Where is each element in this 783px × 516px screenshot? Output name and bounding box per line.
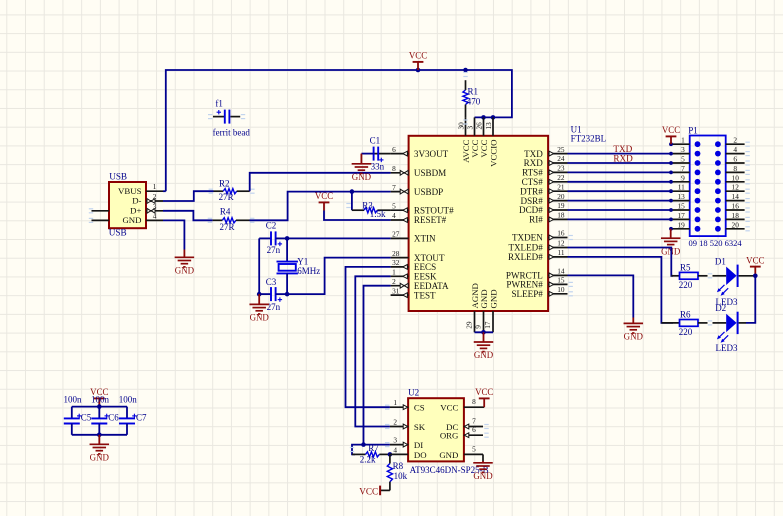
pin 24 RXD of U1 <box>524 154 568 168</box>
svg-text:12: 12 <box>732 183 740 192</box>
pin 12 of P1 <box>726 183 750 194</box>
svg-text:18: 18 <box>557 211 565 220</box>
pin 6 shield of USB <box>92 219 110 221</box>
pin 14 of P1 <box>726 192 750 203</box>
pin 18 of P1 <box>726 211 750 222</box>
svg-text:10k: 10k <box>394 471 408 481</box>
pin 5 RSTOUT# of U1 <box>391 201 455 215</box>
svg-text:USB: USB <box>109 228 127 238</box>
wire EESK to U2 SK <box>355 276 390 426</box>
wire C3 node to XTOUT pin 28 <box>287 258 391 295</box>
pin 19 DCD# of U1 <box>519 201 567 215</box>
power VCC (top rail) <box>409 51 427 70</box>
svg-text:DO: DO <box>414 450 427 460</box>
svg-text:22: 22 <box>557 173 565 182</box>
svg-text:GND: GND <box>489 289 499 308</box>
svg-text:R4: R4 <box>220 207 231 217</box>
svg-text:100n: 100n <box>119 394 138 404</box>
pin 4 of P1 <box>726 145 750 156</box>
svg-text:2: 2 <box>393 418 397 427</box>
svg-text:24: 24 <box>557 154 565 163</box>
svg-text:13: 13 <box>485 122 493 130</box>
capacitor C1 33n <box>361 136 390 172</box>
svg-text:VCC: VCC <box>315 191 333 201</box>
svg-text:27n: 27n <box>267 245 281 255</box>
svg-text:2: 2 <box>153 192 157 201</box>
wire RXLED# to R6 <box>568 257 674 323</box>
pin 16 TXDEN of U1 <box>512 229 568 243</box>
node junction VCC pin26 <box>481 115 486 120</box>
power VCC (LED anode) <box>746 255 764 275</box>
pin 14 PWRCTL of U1 <box>506 267 568 281</box>
svg-text:R7: R7 <box>368 443 379 453</box>
wire U1 pin 25 to P1 <box>568 153 672 155</box>
svg-text:1.5k: 1.5k <box>370 209 386 219</box>
svg-text:3: 3 <box>153 202 157 211</box>
pin 26 VCC of U1 <box>476 117 490 157</box>
pin 15 of P1 <box>669 202 690 212</box>
svg-text:16: 16 <box>732 202 740 211</box>
wire XTAL left rail <box>258 238 260 294</box>
pin 12 TXLED# of U1 <box>508 239 567 253</box>
svg-text:2: 2 <box>392 277 396 286</box>
capacitor C5 100n <box>64 394 92 434</box>
capacitor C7 100n <box>119 394 147 434</box>
pin 15 PWREN# of U1 <box>506 276 567 290</box>
pin 17 GND of U1 <box>483 289 499 332</box>
svg-text:33n: 33n <box>371 161 385 171</box>
pin 28 XTOUT of U1 <box>391 249 445 263</box>
svg-text:4: 4 <box>393 445 397 454</box>
capacitor C6 100n <box>91 394 119 434</box>
pin 1 EESK of U1 <box>391 268 437 282</box>
svg-text:15: 15 <box>557 276 565 285</box>
resistor R4 27R <box>208 207 255 232</box>
node P1 contact dots row 1 <box>695 141 721 147</box>
pin 5 of P1 <box>669 155 690 165</box>
resistor R7 2.2k <box>352 443 390 465</box>
svg-text:7: 7 <box>472 417 476 426</box>
capacitor C2 27n <box>259 220 287 255</box>
wire U1 pin 18 to P1 <box>568 218 672 220</box>
svg-text:D2: D2 <box>715 303 726 313</box>
svg-text:7: 7 <box>392 183 396 192</box>
pin 7 DC of U2 <box>446 417 483 432</box>
pin 8 USBDM of U1 <box>391 164 447 178</box>
svg-text:9: 9 <box>681 173 685 182</box>
pin 10 SLEEP# of U1 <box>511 285 567 299</box>
pin 3 of P1 <box>669 145 690 155</box>
pin 13 of P1 <box>669 192 690 202</box>
wire U2 GND pin down <box>482 454 484 461</box>
node junction EEDATA/DI/R7 <box>361 442 366 447</box>
pin 19 of P1 <box>669 220 690 230</box>
svg-text:20: 20 <box>732 220 740 229</box>
svg-text:17: 17 <box>483 321 492 329</box>
wire U1 pin 21 to P1 <box>568 190 672 192</box>
svg-text:VBUS: VBUS <box>118 186 142 196</box>
label U2 designator <box>408 388 419 398</box>
net label TXD <box>613 144 632 154</box>
ground GND under USB <box>175 250 195 276</box>
wire R4 to USBDP pin 7 <box>250 192 391 221</box>
wire C2 node to XTIN pin 27 <box>287 237 391 239</box>
wire U1 ground pins tie <box>475 331 494 333</box>
svg-text:5: 5 <box>392 201 396 210</box>
svg-text:1: 1 <box>393 398 397 407</box>
svg-text:SLEEP#: SLEEP# <box>511 289 543 299</box>
ground GND under U1 <box>474 332 494 360</box>
pin 3 DI of U2 <box>390 436 423 450</box>
svg-text:VCCIO: VCCIO <box>489 140 499 167</box>
node P1 contact dots row 4 <box>695 170 721 176</box>
svg-text:XTIN: XTIN <box>414 234 436 244</box>
ground GND at U2 <box>473 461 493 481</box>
wire cap bank bottom rail <box>72 434 127 436</box>
svg-text:13: 13 <box>678 192 686 201</box>
svg-text:R1: R1 <box>468 87 479 97</box>
pin 27 XTIN of U1 <box>391 230 436 244</box>
svg-text:CS: CS <box>414 403 425 413</box>
svg-text:P1: P1 <box>688 125 698 135</box>
svg-text:C5: C5 <box>81 413 92 423</box>
svg-text:f1: f1 <box>215 99 223 109</box>
svg-text:ferrit bead: ferrit bead <box>213 127 251 137</box>
label U1 designator <box>571 125 607 144</box>
pin 20 of P1 <box>726 220 750 231</box>
pin 1 CS of U2 <box>390 398 425 412</box>
connector USB body <box>109 182 146 228</box>
node junction VCCIO pin13 <box>491 115 496 120</box>
svg-text:1: 1 <box>392 268 396 277</box>
pin 2 D- of USB <box>132 192 163 206</box>
svg-text:5: 5 <box>472 444 476 453</box>
pin 8 of P1 <box>726 164 750 175</box>
svg-text:6: 6 <box>472 425 476 434</box>
svg-text:100n: 100n <box>91 394 110 404</box>
svg-text:GND: GND <box>474 350 494 360</box>
svg-text:1: 1 <box>681 136 685 145</box>
wire U1 pin 20 to P1 <box>568 200 672 202</box>
wire U1 pin 19 to P1 <box>568 209 672 211</box>
pin 11 of P1 <box>669 183 690 193</box>
label USB (bottom) <box>109 228 127 238</box>
svg-text:R2: R2 <box>219 179 230 189</box>
ground GND at C1 <box>352 154 372 182</box>
wire PWRCTL to ground <box>568 275 634 317</box>
wire EEDATA node to R7 <box>352 445 364 455</box>
power VCC (R8, rotated) <box>359 486 380 497</box>
svg-text:3: 3 <box>681 145 685 154</box>
label USB (top) <box>109 171 127 181</box>
svg-text:27n: 27n <box>267 302 281 312</box>
svg-text:25: 25 <box>557 145 565 154</box>
pin 23 RTS# of U1 <box>522 164 567 178</box>
node junction bottom rail C6 <box>97 433 102 438</box>
pin 3 VCC of U1 <box>467 117 481 157</box>
svg-text:VCC: VCC <box>440 403 458 413</box>
svg-text:6: 6 <box>733 155 737 164</box>
wire EECS to U2 CS <box>346 267 391 407</box>
pin 2 of P1 <box>726 136 750 147</box>
pin 1 of P1 <box>669 136 690 146</box>
node junction C3/XTOUT <box>285 292 290 297</box>
wire D+ from USB to R4 <box>163 211 213 221</box>
resistor R1 470 <box>463 72 481 118</box>
svg-text:8: 8 <box>733 164 737 173</box>
pin 32 EECS of U1 <box>391 258 437 272</box>
node VCC junction at power symbol <box>416 68 421 73</box>
pin 5 shield of USB <box>92 210 110 212</box>
svg-text:3: 3 <box>393 436 397 445</box>
svg-text:USBDM: USBDM <box>414 168 446 178</box>
pin 29 AGND of U1 <box>464 283 480 332</box>
node P1 contact dots row 6 <box>695 188 721 194</box>
pin 13 VCCIO of U1 <box>485 117 499 166</box>
pin 10 of P1 <box>726 173 750 184</box>
node P1 contact dots row 5 <box>695 179 721 185</box>
svg-text:19: 19 <box>557 201 565 210</box>
svg-text:RSTOUT#: RSTOUT# <box>414 205 454 215</box>
svg-text:RXD: RXD <box>613 154 633 164</box>
pin 30 AVCC of U1 <box>458 117 472 162</box>
svg-text:VCC: VCC <box>479 139 489 157</box>
ground GND at PWRCTL <box>624 318 644 342</box>
power VCC (RESET#) <box>315 191 333 210</box>
wire VCC rail top <box>166 70 512 191</box>
node junction VCC/D1/D2 <box>753 274 758 279</box>
svg-text:VCC: VCC <box>475 387 493 397</box>
ground GND under cap bank <box>90 435 110 463</box>
led D1 LED3 <box>713 256 756 306</box>
wire EEDATA node to U2 DI <box>364 444 390 446</box>
wire R2 to USBDM pin 8 <box>250 173 391 191</box>
connector P1 body <box>690 136 726 237</box>
svg-text:GND: GND <box>473 471 493 481</box>
svg-text:GND: GND <box>439 450 458 460</box>
node junction USBDP/R3 <box>350 189 355 194</box>
svg-text:VCC: VCC <box>359 487 378 497</box>
svg-text:GND: GND <box>352 172 372 182</box>
pin 2 SK of U2 <box>390 418 426 432</box>
wire VCC down to D2 <box>746 276 755 323</box>
pin 6 3V3OUT of U1 <box>391 145 449 159</box>
svg-text:C1: C1 <box>370 136 381 146</box>
svg-text:11: 11 <box>678 183 685 192</box>
svg-text:10: 10 <box>732 173 740 182</box>
resistor R6 220 <box>661 310 712 337</box>
wire U1 pin 22 to P1 <box>568 181 672 183</box>
svg-text:14: 14 <box>557 267 565 276</box>
svg-text:RESET#: RESET# <box>414 215 447 225</box>
pin 9 GND of U1 <box>473 289 489 332</box>
svg-text:2: 2 <box>733 136 737 145</box>
svg-text:15: 15 <box>678 202 686 211</box>
pin 11 RXLED# of U1 <box>508 248 568 262</box>
svg-text:R6: R6 <box>680 310 691 320</box>
op-amp U2 AT93C46 body <box>408 398 464 461</box>
pin 4 RESET# of U1 <box>391 211 447 225</box>
svg-text:220: 220 <box>679 327 693 337</box>
svg-text:28: 28 <box>392 249 400 258</box>
svg-text:GND: GND <box>624 332 644 342</box>
svg-text:DI: DI <box>414 440 423 450</box>
svg-text:8: 8 <box>392 164 396 173</box>
pin 1 VBUS of USB <box>118 182 163 196</box>
svg-text:TEST: TEST <box>414 290 436 300</box>
node junction XTAL rail to ground <box>257 292 262 297</box>
grid snap marks <box>89 119 573 452</box>
led D2 LED3 <box>713 303 747 353</box>
power VCC (U2 pin 8) <box>475 387 493 407</box>
wire D- from USB to R2 <box>163 191 214 201</box>
svg-text:8: 8 <box>472 397 476 406</box>
svg-text:GND: GND <box>479 289 489 308</box>
svg-text:R5: R5 <box>680 263 691 273</box>
node P1 contact dots row 3 <box>695 160 721 166</box>
wire TXLED# to R5 <box>568 248 674 276</box>
pin 4 GND of USB <box>122 211 163 225</box>
svg-text:FT232BL: FT232BL <box>571 133 607 143</box>
wire USB GND pin to ground <box>163 220 184 249</box>
svg-text:LED3: LED3 <box>716 343 738 353</box>
wire U1 pin 23 to P1 <box>568 171 672 173</box>
svg-text:4: 4 <box>153 211 157 220</box>
svg-text:220: 220 <box>679 280 693 290</box>
crystal Y1 6MHz <box>277 257 321 276</box>
resistor R3 1.5k <box>346 200 390 219</box>
svg-text:5: 5 <box>681 155 685 164</box>
svg-text:GND: GND <box>250 313 270 323</box>
svg-text:14: 14 <box>732 192 740 201</box>
pin 2 EEDATA of U1 <box>391 277 449 291</box>
svg-text:C2: C2 <box>266 220 277 230</box>
pin 20 DSR# of U1 <box>521 192 568 206</box>
pin 7 of P1 <box>669 164 690 174</box>
ground GND at crystal <box>249 294 269 323</box>
svg-text:U2: U2 <box>408 388 419 398</box>
power VCC (P1 pin 1) <box>662 125 680 144</box>
wire C2 node down to Y1 <box>286 238 288 261</box>
svg-text:RXLED#: RXLED# <box>508 252 543 262</box>
svg-text:1: 1 <box>153 182 157 191</box>
svg-text:4: 4 <box>733 145 737 154</box>
svg-text:470: 470 <box>467 96 481 106</box>
svg-text:3: 3 <box>467 126 475 130</box>
pin 7 USBDP of U1 <box>391 183 444 197</box>
svg-text:4: 4 <box>392 211 396 220</box>
wire cap bank top rail <box>72 406 127 408</box>
node P1 contact dots row 8 <box>695 207 721 213</box>
node junction C2/XTIN <box>285 236 290 241</box>
svg-text:18: 18 <box>732 211 740 220</box>
wire U1 pin 24 to P1 <box>568 162 672 164</box>
pin 6 of P1 <box>726 155 750 166</box>
svg-text:SK: SK <box>414 422 426 432</box>
svg-text:USBDP: USBDP <box>414 187 443 197</box>
resistor R2 27R <box>209 179 255 202</box>
svg-text:20: 20 <box>557 192 565 201</box>
pin 9 of P1 <box>669 173 690 183</box>
node junction DO/R7/R8 <box>388 452 393 457</box>
node junction VCC rail to R1 <box>463 68 468 73</box>
svg-text:09 18 520 6324: 09 18 520 6324 <box>689 238 743 248</box>
pin 4 DO of U2 <box>390 445 427 459</box>
resistor R8 10k <box>387 454 407 490</box>
svg-text:VCC: VCC <box>409 51 427 61</box>
wire R8 to VCC stub <box>380 489 390 491</box>
label P1 designator <box>688 125 698 135</box>
svg-text:R8: R8 <box>393 461 404 471</box>
svg-text:30: 30 <box>458 122 466 130</box>
svg-text:100n: 100n <box>64 394 83 404</box>
node junction top rail C6 <box>97 404 102 409</box>
node P1 contact dots row 7 <box>695 198 721 204</box>
svg-text:D-: D- <box>132 196 141 206</box>
svg-text:16: 16 <box>557 229 565 238</box>
svg-text:3V3OUT: 3V3OUT <box>414 149 449 159</box>
svg-text:C3: C3 <box>266 277 277 287</box>
node P1 contact dots row 9 <box>695 217 721 223</box>
pin 22 CTS# of U1 <box>522 173 568 187</box>
node P1 contact dots row 10 <box>695 226 721 232</box>
wire VBUS to VCC rail <box>163 190 166 192</box>
svg-text:7: 7 <box>681 164 685 173</box>
pin 18 RI# of U1 <box>529 211 567 225</box>
svg-text:27R: 27R <box>220 222 235 232</box>
svg-text:RI#: RI# <box>529 215 543 225</box>
svg-text:USB: USB <box>109 171 127 181</box>
svg-text:VCC: VCC <box>662 125 680 135</box>
label P1 part number <box>689 238 743 248</box>
svg-text:12: 12 <box>557 239 565 248</box>
op-amp U1 FT232BL body <box>409 136 548 311</box>
label U2 part number <box>410 465 489 475</box>
svg-text:9: 9 <box>473 325 482 329</box>
svg-text:2.2k: 2.2k <box>360 455 376 465</box>
node junction U1 GND <box>481 330 486 335</box>
capacitor C3 27n <box>259 277 287 312</box>
svg-text:GND: GND <box>90 453 110 463</box>
wire EEDATA down <box>364 286 391 445</box>
svg-text:GND: GND <box>175 266 195 276</box>
svg-text:D+: D+ <box>130 205 141 215</box>
pin 17 of P1 <box>669 211 690 221</box>
svg-text:19: 19 <box>678 220 686 229</box>
pin 16 of P1 <box>726 202 750 213</box>
svg-text:D1: D1 <box>715 256 726 266</box>
ferrite bead f1 <box>208 99 250 138</box>
svg-text:26: 26 <box>476 122 484 130</box>
svg-text:GND: GND <box>122 215 141 225</box>
svg-text:6: 6 <box>392 145 396 154</box>
svg-text:11: 11 <box>557 248 564 257</box>
svg-text:17: 17 <box>678 211 686 220</box>
svg-text:23: 23 <box>557 164 565 173</box>
pin 5 GND of U2 <box>439 444 483 459</box>
node P1 contact dots row 2 <box>695 151 721 157</box>
wire USBDP node down to R3 <box>351 192 353 211</box>
pin 8 VCC of U2 <box>440 397 484 412</box>
svg-text:VCC: VCC <box>746 255 764 265</box>
svg-text:TXDEN: TXDEN <box>512 233 543 243</box>
svg-text:C7: C7 <box>136 413 147 423</box>
pin 31 TEST of U1 <box>391 286 436 300</box>
wire Y1 to C3 node <box>286 273 288 294</box>
svg-text:C6: C6 <box>108 413 119 423</box>
wire VCC to RESET# pin 4 <box>324 211 391 221</box>
pin 25 TXD of U1 <box>524 145 567 159</box>
